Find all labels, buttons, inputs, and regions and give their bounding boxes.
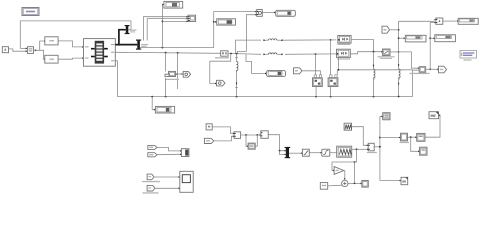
wire down into leg2 pin [336,70,338,75]
shunt load branch coil 2 [398,64,400,97]
PWM generator block [337,146,352,157]
wire PWM to comparator [352,148,367,150]
node bold junction [118,43,120,45]
wire bridge1 output down to load bus [351,40,373,52]
wire K1 to relational block [213,127,233,133]
node load bus junction [373,51,375,53]
carrier generator block [344,123,352,130]
wire tap to scope S1 [161,5,163,48]
sum block 2 [261,131,268,139]
gate signal riser vertical [379,116,381,180]
wire input current to scope [155,187,178,189]
from tag output current pentagon [142,174,160,182]
product block X1 [257,10,263,17]
wire relational to sum2 [241,134,260,136]
to file block T [429,112,439,119]
wire gate riser bottom to file block [380,180,400,182]
bus voltage measurement cluster [165,53,184,97]
node display tap [213,21,215,23]
goto tag gate P1 pentagon [294,68,303,74]
comparator block [367,143,377,153]
node tap to leg 2 [330,39,332,41]
wire load node to output voltage block [399,52,418,68]
wire riser to display D1 [399,37,404,39]
wire return bus to display DL [152,97,154,110]
wire Iabc riser to product [214,12,256,48]
wire riser into goto gate block [380,115,382,117]
wire bus tap to product input 2 [238,15,256,55]
mux bar block [286,147,289,158]
goto tag bus voltage pentagon [183,71,190,77]
rate limiter block [322,149,330,156]
wire B up to scope block T [425,115,440,137]
unit delay block [248,143,255,149]
converter leg module 2 [328,75,338,97]
node third input tap [162,21,164,23]
bridge2 bottom rail wire [338,57,412,69]
display D1 [405,35,426,42]
load switch block [378,49,395,59]
wire multiply to display R1 [443,20,457,22]
wire gate tag to leg1 pin [302,71,320,75]
wire output voltage to goto tag [426,68,438,70]
mean block [362,181,369,188]
scope display S1 [164,1,183,8]
scope S2 block [180,171,193,192]
wire feedback loop from V measurement to controller [20,21,131,49]
wire Vb to workspace block [157,153,180,155]
wire output current to scope [154,176,178,178]
wire loop back up to tap line [354,162,356,183]
voltage measurement V1 bar [125,25,137,34]
wire R2 to transformer port B [58,58,82,59]
resistor R2 block [45,55,58,63]
wire sum circle to mean block [348,182,360,184]
wire gain to sum circle [344,171,345,179]
node bottom rail to leg2 gate [338,69,340,71]
wire L1 to bridge 1 [285,39,336,41]
wire transformer port c down [115,61,117,97]
three-phase V-I measurement bar [136,40,148,50]
wire Iabc measurement line [140,47,214,49]
controller block U1 [27,47,33,54]
series RLC branch L1 [263,39,285,41]
wire L1 line to converter leg 2 [330,40,332,75]
bridge 1 universal bridge [338,35,352,45]
goto tag Iout pentagon [217,80,226,86]
breaker B1 block [215,51,229,59]
display D3 [217,19,236,25]
goto gate block top [383,113,390,120]
wire ramp tag to relational block [214,136,233,141]
node return taps [151,96,153,98]
wire source to controller [9,49,26,51]
wire comparator output to gate riser [374,146,380,148]
series RLC branch L2 [263,53,282,55]
wire rate limiter to PWM generator [330,152,337,154]
wire R1 to transformer port A [58,41,82,47]
resistor R1 block [45,37,58,45]
to workspace block [181,149,189,157]
wire L1 branch left drop to bus [235,40,261,54]
mini scope block [188,15,196,21]
wire controller to R1 [34,41,45,50]
transformer T1 block [84,39,116,67]
constant K2 block [320,183,327,190]
wire main bus transformer port b to breaker B1 [115,52,220,53]
wire bus B1 to bridge 2 [228,52,261,55]
wire bus tap to DC display [246,54,265,73]
wire bus to converter leg 1 [315,54,317,75]
node bus tap 1 [165,52,167,54]
wire load switch to node [390,51,399,53]
wire K2 to sum circle [328,184,343,187]
wire PWM tap to gain triangle [332,149,357,170]
model info annotation block [460,51,477,61]
wire riser to counter block A [380,137,399,139]
saturation block [302,149,309,156]
bold wire transformer port a bus [115,44,137,46]
wire junction down to block C [411,137,418,151]
wire V-I measurement output Vabc up [144,17,187,41]
bridge 2 universal bridge [337,49,351,59]
wire vertical measurement riser x398 [398,21,400,66]
shunt RLC branch C1 vertical [235,54,238,97]
wire sum2 to mux inputs [268,135,284,151]
display DL [155,106,174,113]
counter block A [400,133,410,143]
node Iabc tap [162,47,164,49]
display R1 [458,18,478,24]
constant source block [2,47,8,53]
constant K1 block [206,124,212,130]
wire bridge2 output jog to load switch [350,52,381,54]
wire tap to display D3 [214,21,216,23]
wire riser to display D2 [430,37,433,39]
sum circle block [342,180,348,186]
counter block B [417,133,425,141]
wire riser to multiply [399,20,435,22]
node controller output [35,49,37,51]
powergui block [22,8,39,16]
from tag Va pentagon [148,145,157,149]
from tag input current pentagon [143,185,159,193]
wire product to display D4 [262,12,274,14]
from tag ramp pentagon [204,138,213,143]
wire Va to workspace block [157,147,180,151]
output voltage measurement block [410,67,430,74]
block C [420,147,428,155]
node bus tap 2 [177,52,179,54]
display DC voltage [267,70,286,76]
wire tap to mini scope input 3 [162,20,186,22]
wire carrier to comparator [352,127,368,146]
shunt load branch coil 1 [373,52,375,97]
wire A to B [408,136,416,138]
node bus taps [230,53,232,55]
from tag Vb pentagon [148,153,157,157]
display D4 [276,10,296,16]
node load node right [398,51,400,53]
wire measurement riser x430 [429,23,431,70]
display D2 [435,35,456,42]
bold wire tap to V1 measurement [119,30,126,45]
unit delay feedback loop [245,135,248,146]
relational operator block [234,132,241,139]
goto tag PWM pentagon top [382,26,390,33]
wire tag to riser [390,29,399,31]
goto tag Vout pentagon [439,66,447,73]
multiply block X2 [436,18,443,24]
wire V-I measurement output Iabc up [147,19,186,41]
wire controller to R2 [40,50,45,59]
converter leg module 1 [313,75,323,97]
gain triangle block [334,167,344,175]
to file block bottom [401,177,408,184]
wire bus tap to goto Iout [210,54,231,84]
transformer core icon [95,41,104,64]
wire mux to saturation [289,152,301,154]
wire return bus bottom rail [117,70,419,96]
wire saturation to rate limiter [309,152,320,154]
